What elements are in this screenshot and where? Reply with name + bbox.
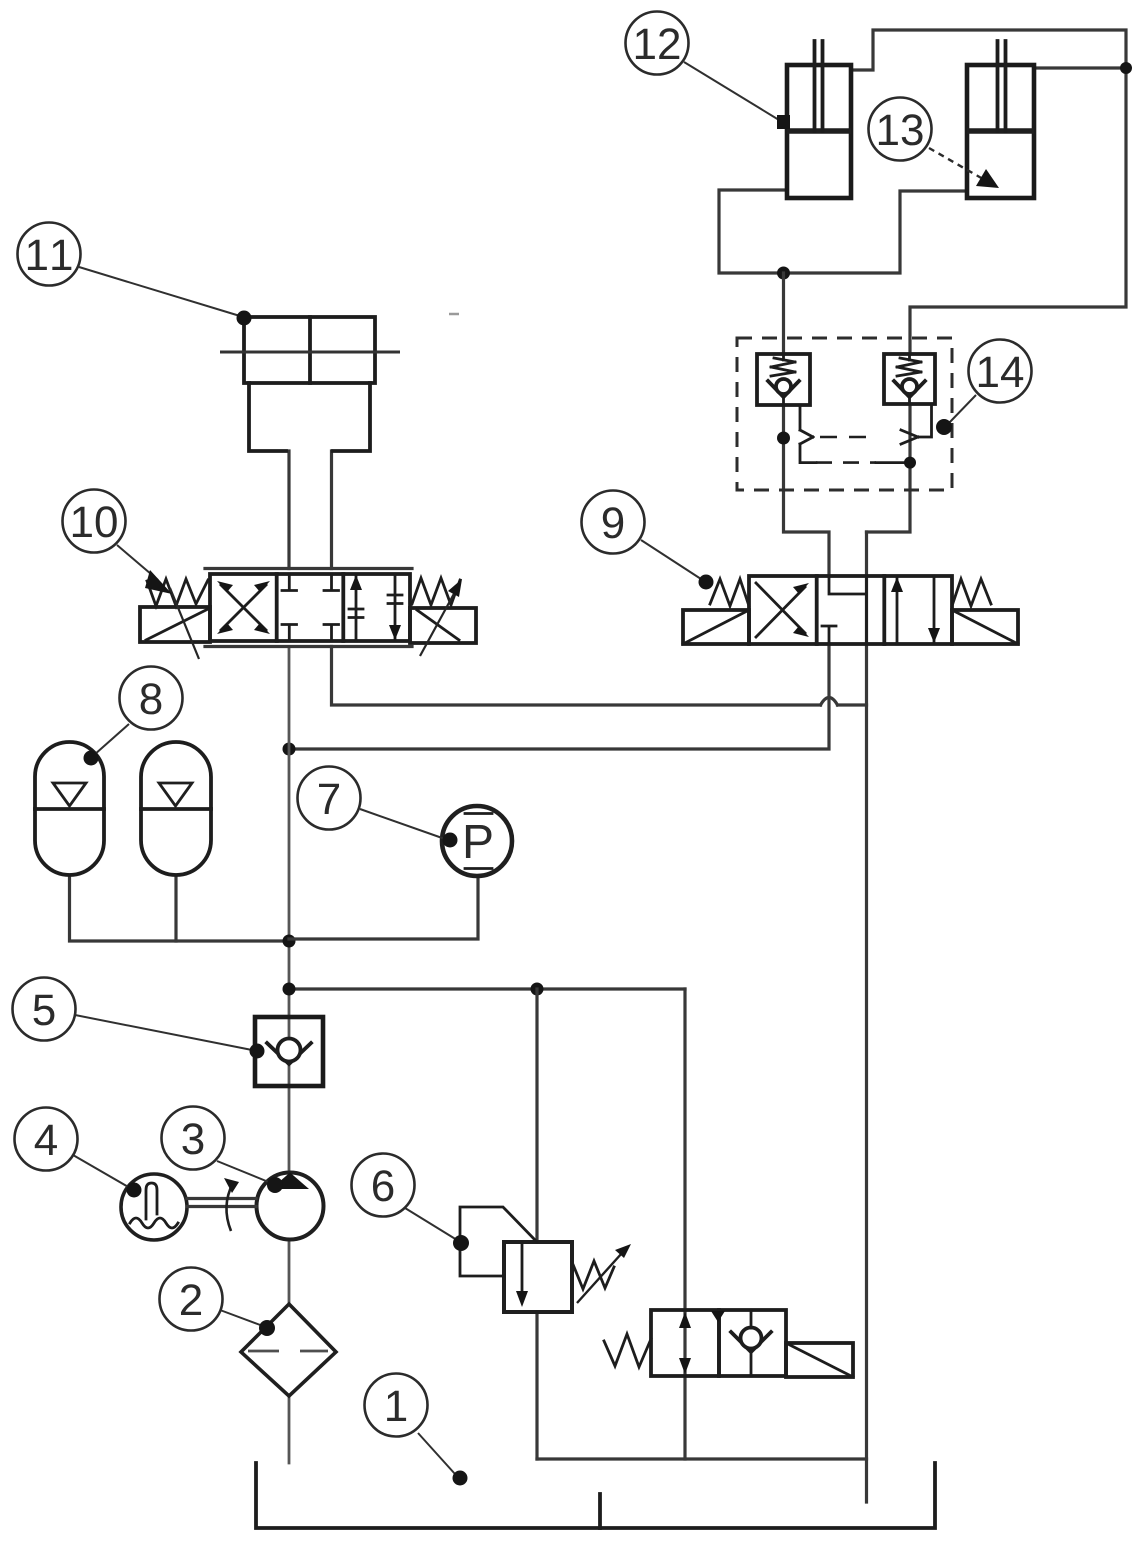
label 14 <box>969 340 1032 403</box>
node junction accumulator line on main <box>283 935 296 948</box>
actuator 11 cross shaft line <box>220 351 400 354</box>
node junction branch on main <box>283 983 296 996</box>
node junction below check valve L <box>777 432 790 445</box>
relief valve 6 body <box>504 1242 572 1312</box>
valve 10 right spring <box>412 578 460 605</box>
pilot lower crossover line <box>800 444 816 463</box>
wire pressure gauge connection <box>289 876 478 939</box>
label 5 leader <box>75 1015 252 1050</box>
cylinder 13 piston <box>967 128 1034 134</box>
pump 3 outlet triangle <box>271 1173 309 1190</box>
valve 9 dividers <box>817 576 885 644</box>
relief valve 6 flow path <box>521 1242 524 1294</box>
pilot check valve L body <box>757 354 810 405</box>
wire branch line to relief and unloading valves <box>289 987 685 990</box>
label 8 leader <box>94 724 129 755</box>
node junction pilot on R line <box>904 457 916 469</box>
label 1 <box>365 1374 428 1437</box>
label 12 leader <box>684 62 779 120</box>
cylinder 13 body <box>967 65 1034 198</box>
pump 3 <box>257 1173 324 1240</box>
wire valve 10 T port across with bridge hop to tank return line <box>332 647 821 706</box>
unloading valve flow arrows <box>679 1312 691 1328</box>
wire accumulator 2 drop line <box>174 875 177 941</box>
label 3 leader <box>217 1161 271 1183</box>
label 14 leader <box>948 395 976 424</box>
unloading valve pilot nib <box>711 1311 725 1322</box>
pilot check valve L spring <box>771 354 795 376</box>
tank 1 <box>256 1463 935 1528</box>
valve 10 right solenoid arrow <box>420 590 456 656</box>
valve 10 left spring <box>147 579 208 606</box>
pressure gauge 7 <box>442 806 512 876</box>
node junction at right riser <box>1120 62 1132 74</box>
wire drain collector to tank return <box>537 1457 867 1460</box>
wire rod-side loop: cyl12 top port to top rail to right riser down to check valve R <box>851 30 1126 354</box>
cylinder 12 rod <box>815 41 823 131</box>
unloading valve check seat <box>731 1332 771 1352</box>
label 7 leader <box>360 809 445 839</box>
motor 4 glyph <box>146 1183 157 1219</box>
pilot check valve R stub <box>908 397 911 404</box>
accumulator 8a separator line <box>35 807 104 811</box>
actuator 11 divider <box>308 317 312 383</box>
unloading valve left box <box>651 1310 719 1376</box>
valve 10 proportional outer lines <box>205 569 412 647</box>
accumulator 8a shell <box>35 742 104 875</box>
valve 10 center box blocked ports <box>282 574 339 641</box>
label 7 <box>298 767 361 830</box>
wire down through unloading valve <box>683 989 686 1459</box>
valve 9 right solenoid <box>952 610 1018 644</box>
wire relief valve drain <box>535 1312 538 1459</box>
cylinder 12 piston <box>787 128 851 134</box>
unloading valve check ball <box>741 1328 762 1349</box>
coupling shaft <box>187 1199 256 1207</box>
valve 10 left proportional solenoid <box>140 607 210 642</box>
label 11 leader <box>79 267 240 316</box>
valve 9 left spring <box>710 579 749 606</box>
valve 10 body <box>210 574 410 641</box>
unloading valve spring <box>604 1334 651 1367</box>
pilot check valve L ball <box>776 379 791 394</box>
valve 9 left box crossed arrows <box>756 583 805 637</box>
valve 9 left solenoid <box>683 610 749 644</box>
valve 9 right spring <box>952 579 991 606</box>
label 9 leader <box>641 540 701 579</box>
accumulator 8a gas triangle <box>53 783 86 806</box>
label 10 <box>63 490 126 553</box>
stray mark <box>449 313 459 316</box>
label 4 <box>15 1108 78 1171</box>
filter 2 element dashes <box>248 1350 328 1353</box>
accumulator 8b gas triangle <box>159 783 192 806</box>
label 13 dashed leader <box>929 148 983 179</box>
actuator 11 upper box <box>244 317 375 383</box>
unloading valve solenoid <box>786 1343 853 1377</box>
node junction on piston-side loop <box>777 267 790 280</box>
wire junction down to check valve L <box>782 273 785 354</box>
label 1 leader <box>418 1433 455 1474</box>
tank baffle <box>598 1494 602 1528</box>
label 3 <box>162 1107 225 1170</box>
pilot arrow into valve R <box>901 404 932 444</box>
wire down to relief valve 6 <box>535 989 538 1242</box>
wire piston-side loop: cyl12 bottom port, down, across, up to cyl13 bottom port <box>719 190 967 273</box>
check valve 5 ball <box>278 1039 301 1062</box>
valve 10 right box throttled paths <box>349 576 363 641</box>
label 6 <box>352 1154 415 1217</box>
relief valve 6 spring <box>572 1261 614 1289</box>
wire valve 10 port A up to actuator block <box>287 451 290 569</box>
pilot line left port with arrow <box>800 405 813 444</box>
pilot check valve R body <box>884 354 935 404</box>
actuator 11 lower block <box>249 383 370 451</box>
valve 10 left solenoid crossing line <box>170 588 199 659</box>
label 9 <box>582 491 645 554</box>
valve 9 body <box>749 576 952 644</box>
label 8 <box>120 667 183 730</box>
node junction main line y749 <box>283 743 296 756</box>
valve 10 left box crossed arrows <box>221 585 266 630</box>
valve 9 right box straight paths <box>896 578 899 644</box>
accumulator 8b shell <box>141 742 211 875</box>
cylinder 12 body <box>787 65 851 198</box>
pilot check valve L seat <box>768 381 799 397</box>
wire continue to tank return <box>838 703 867 706</box>
pilot crossover dashed link <box>820 436 878 439</box>
label 4 leader <box>73 1155 130 1188</box>
wire cyl13 top port to right riser <box>1034 66 1126 69</box>
label 2 leader <box>220 1310 263 1326</box>
label 12 <box>626 12 689 75</box>
label 11 <box>18 223 81 286</box>
pilot check valve R spring <box>897 354 921 376</box>
label 5 <box>13 978 76 1041</box>
label 10 leader <box>117 545 158 580</box>
wire check valve R out, staircase to valve 9 port B <box>867 404 911 532</box>
wire main pressure line from valve 10 down through pump to tank <box>288 647 291 1464</box>
label 6 leader <box>405 1208 457 1240</box>
node junction relief valve tap <box>531 983 544 996</box>
pilot check valve R seat <box>894 381 925 397</box>
wire bridge hop over P line <box>821 698 838 706</box>
valve 10 dividers <box>277 574 344 641</box>
cylinder 13 rod <box>998 41 1006 131</box>
wire valve 10 port B up to actuator block <box>330 451 333 569</box>
wire check valve L out, staircase to valve 9 port A <box>784 405 830 576</box>
pilot check valve L stub <box>782 397 785 405</box>
valve 9 center box bridge and blocked port <box>822 576 867 644</box>
wire long tank return line through valve 9 down into tank <box>865 532 868 1502</box>
unloading valve check stubs <box>750 1310 753 1376</box>
filter 2 body <box>241 1304 336 1396</box>
hydraulic lock 14 dashed enclosure <box>737 338 952 490</box>
pilot check valve R ball <box>902 379 917 394</box>
relief valve 6 adjusting arrow <box>577 1253 622 1303</box>
unloading valve right box <box>719 1310 786 1376</box>
relief valve 6 pilot loop <box>460 1207 537 1276</box>
wire accumulator 1 drop line to main line <box>70 875 290 941</box>
valve 10 right proportional solenoid <box>410 608 476 643</box>
label 2 <box>160 1268 223 1331</box>
wire valve 9 P port down and across to main pressure line <box>289 644 829 749</box>
rotation arrow <box>226 1183 233 1231</box>
motor 4 <box>121 1174 187 1240</box>
check valve 5 seat <box>267 1043 311 1064</box>
check valve 5 body <box>255 1017 323 1086</box>
accumulator 8b separator line <box>141 807 211 811</box>
label 13 <box>869 98 932 161</box>
